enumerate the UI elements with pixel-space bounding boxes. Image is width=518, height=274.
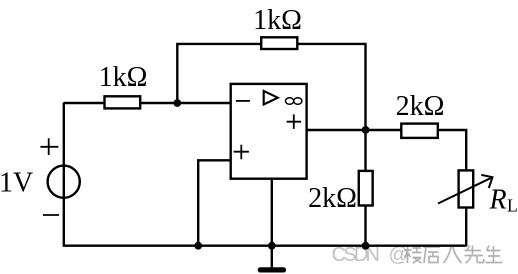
node junction dot R4 bottom [362, 242, 370, 250]
resistor R1 1kΩ body [105, 96, 141, 108]
svg-text:2kΩ: 2kΩ [308, 183, 357, 214]
op-amp U1 triangle [264, 91, 278, 105]
op-amp U1 body [231, 84, 307, 179]
svg-text:1V: 1V [0, 167, 33, 198]
wire: feedback top horizontal [176, 43, 366, 45]
op-amp U1 output plus sign [287, 114, 302, 128]
label V1 plus [40, 138, 58, 155]
watermark CSDN @楼店八先生 [332, 244, 503, 266]
label RL [489, 185, 518, 216]
wire: feedback left vertical [176, 44, 178, 104]
op-amp U1 non-inverting input plus sign [234, 145, 249, 160]
svg-text:R: R [489, 185, 507, 216]
op-amp U1 infinity symbol [286, 98, 302, 105]
wire: op-amp ground lead [271, 178, 273, 268]
wire: output node down to R4 [364, 130, 366, 171]
wire: source top to R1 [64, 102, 105, 104]
voltage source V1 circle [48, 166, 80, 198]
svg-text:L: L [507, 196, 518, 216]
wire: R1 to op-amp inverting input [140, 102, 231, 104]
node junction dot bottom-left [194, 242, 202, 250]
ground symbol [260, 267, 283, 272]
node junction dot op-amp ground [268, 242, 276, 250]
resistor R3 2kΩ horizontal body [401, 124, 438, 138]
svg-text:CSDN: CSDN [332, 244, 381, 266]
svg-text:2kΩ: 2kΩ [396, 91, 445, 122]
label V1 minus [43, 214, 59, 216]
wire: bottom bus [63, 244, 467, 246]
wire: RL bottom to bus [465, 207, 467, 246]
wire: op-amp output [307, 129, 402, 131]
node A junction dot (inverting input) [173, 99, 181, 107]
wire: R4 bottom to bus [364, 205, 366, 246]
node B output junction dot [362, 126, 370, 134]
resistor R4 2kΩ vertical body [359, 171, 373, 206]
op-amp U1 inverting input minus sign [236, 100, 250, 102]
svg-text:1kΩ: 1kΩ [99, 62, 148, 93]
resistor R2 1kΩ feedback body [261, 37, 297, 49]
variable resistor RL arrow [438, 175, 493, 204]
wire: non-inverting input to bottom bus [198, 160, 231, 246]
wire: R3 to RL top corner [438, 130, 467, 171]
wire: feedback right vertical [364, 44, 366, 130]
variable resistor RL body [459, 170, 474, 207]
wire: source branch vertical [63, 103, 65, 246]
svg-text:1kΩ: 1kΩ [253, 5, 302, 36]
